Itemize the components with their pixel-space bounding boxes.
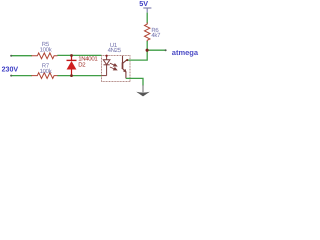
transistor Q inside U1 (phototransistor) xyxy=(123,56,127,79)
node collector pin dot xyxy=(126,59,128,61)
wire xyxy=(57,75,101,77)
light arrow 2 xyxy=(110,67,117,70)
node junction bottom wire / D2 xyxy=(70,74,73,77)
power +5V symbol xyxy=(143,8,151,13)
svg-text:4k7: 4k7 xyxy=(151,32,161,39)
LED inside U1 xyxy=(102,56,110,76)
diode D2 1N4001 xyxy=(67,55,77,75)
ground xyxy=(136,85,150,96)
wire bottom net 230V to opto cathode xyxy=(11,75,32,77)
node wire end tip bottom-left xyxy=(10,75,12,77)
svg-text:230V: 230V xyxy=(2,66,19,74)
node junction top wire / D2 xyxy=(70,54,73,57)
resistor R6 xyxy=(145,23,150,42)
svg-text:D2: D2 xyxy=(78,61,86,68)
light arrow 1 xyxy=(110,63,117,66)
resistor R5 xyxy=(31,53,57,59)
wire emitter to ground xyxy=(126,78,143,85)
transistor emitter arrowhead xyxy=(123,69,127,73)
node wire end tip top-left xyxy=(10,55,12,57)
wire 5V to R6 xyxy=(146,13,148,24)
node LED anode pin dot xyxy=(106,55,108,57)
svg-text:atmega: atmega xyxy=(172,48,199,57)
wire collector to R6 junction xyxy=(127,50,147,60)
wire xyxy=(57,54,101,56)
node junction R6 / collector / atmega xyxy=(146,49,149,52)
node wire end tip atmega xyxy=(165,49,167,51)
svg-text:4N25: 4N25 xyxy=(108,47,122,54)
svg-text:100k: 100k xyxy=(40,46,53,53)
wire junction to atmega xyxy=(147,49,166,51)
wire top net 230V to opto anode xyxy=(11,55,32,57)
svg-text:100k: 100k xyxy=(40,68,53,75)
op-amp U1 optocoupler 4N25 dashed body xyxy=(102,56,131,82)
svg-text:5V: 5V xyxy=(139,0,148,8)
resistor R7 xyxy=(31,73,57,79)
wire R6 to junction xyxy=(146,41,148,50)
